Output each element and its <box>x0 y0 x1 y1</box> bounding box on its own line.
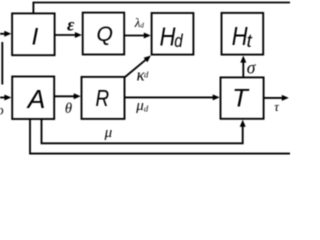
wire top feedback from I to right edge <box>33 3 290 14</box>
svg-text:H: H <box>160 21 176 51</box>
svg-text:t: t <box>247 30 253 51</box>
svg-text:σ: σ <box>247 58 257 78</box>
svg-text:R: R <box>96 85 110 111</box>
box Ht <box>222 13 264 55</box>
box T <box>221 77 264 118</box>
svg-text:ε: ε <box>67 15 75 35</box>
wire into A from left edge <box>0 97 6 99</box>
arrowhead into Ht from T <box>240 56 246 63</box>
svg-text:θ: θ <box>65 101 72 117</box>
svg-text:d: d <box>174 30 183 51</box>
wire A bottom to T bottom loop (mu) <box>42 119 243 143</box>
wire T up to Ht <box>242 62 244 78</box>
svg-text:H: H <box>232 23 248 51</box>
svg-text:A: A <box>26 84 46 114</box>
svg-text:Q: Q <box>97 22 114 46</box>
svg-text:T: T <box>232 85 250 113</box>
box R <box>82 77 125 119</box>
wire Q to Hd <box>124 35 145 37</box>
svg-text:μ: μ <box>104 125 113 141</box>
box I <box>12 13 55 55</box>
arrowhead into A <box>4 95 11 101</box>
arrowhead into T bottom <box>240 120 246 127</box>
svg-text:I: I <box>32 24 39 51</box>
box A <box>12 77 54 120</box>
box Q <box>83 13 125 55</box>
wire A bottom to right edge outer loop <box>30 119 290 154</box>
arrowhead into I <box>4 31 11 37</box>
wire R to T <box>125 96 214 98</box>
wire A to R <box>54 95 74 97</box>
arrowhead into R <box>74 93 81 99</box>
arrowhead into Hd <box>144 33 151 39</box>
svg-text:d: d <box>140 22 144 30</box>
arrowhead diagonal into Hd corner <box>144 56 151 63</box>
arrowhead into Q <box>75 32 82 38</box>
box Hd <box>152 13 194 55</box>
arrowhead T exit right <box>282 95 289 101</box>
wire I to Q <box>55 34 76 36</box>
wire stub cropped box at left edge <box>1 42 3 85</box>
svg-text:ρ: ρ <box>0 103 4 118</box>
wire T to right edge <box>264 97 283 99</box>
svg-text:d: d <box>144 103 149 113</box>
svg-text:d: d <box>144 69 149 79</box>
arrowhead into T from R <box>213 94 220 100</box>
wire diagonal R to Hd <box>125 60 146 77</box>
wire into I from left edge <box>0 33 6 35</box>
